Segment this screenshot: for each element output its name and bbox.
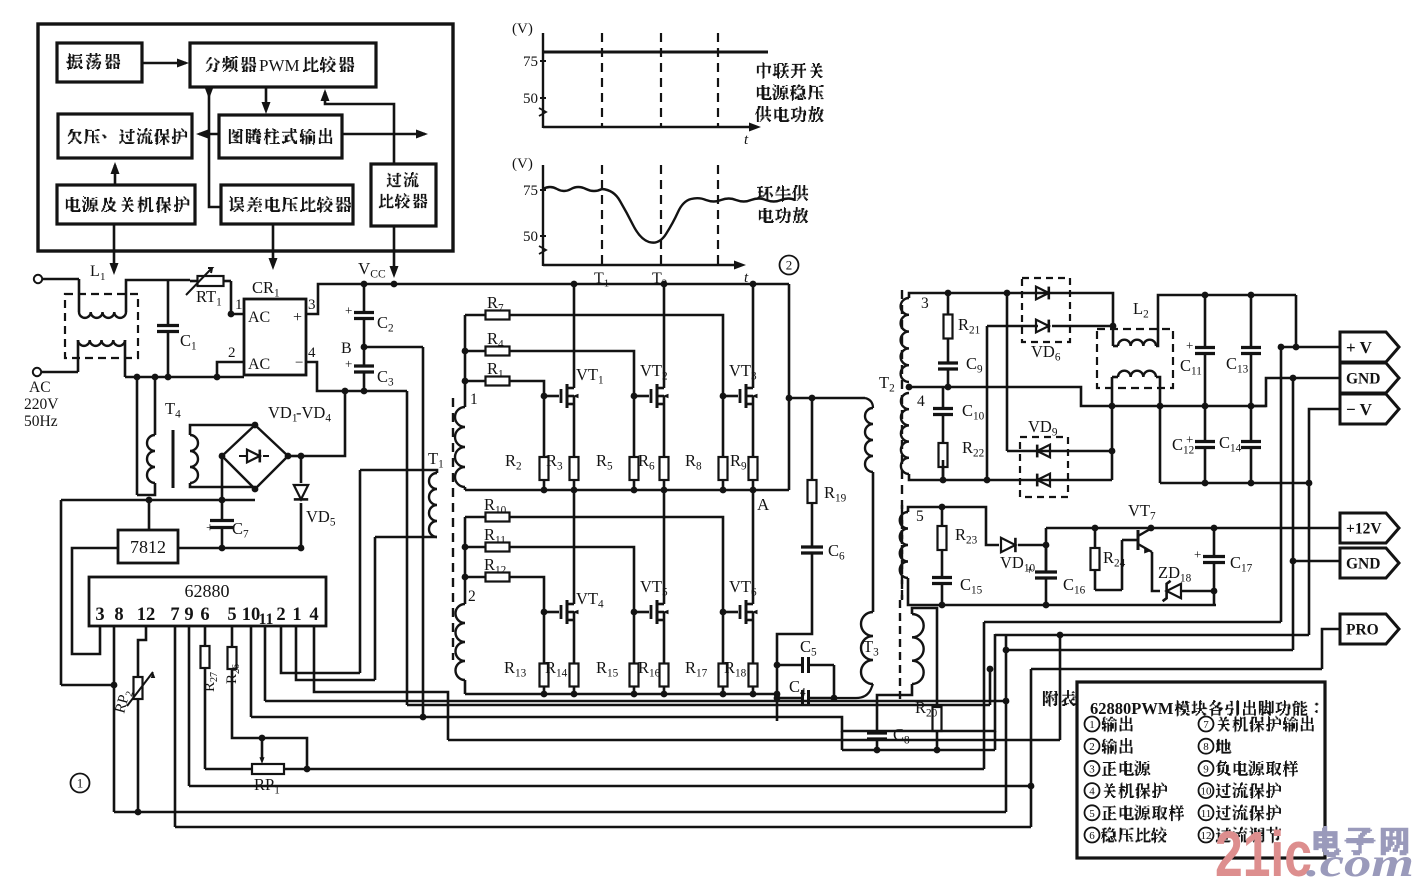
rectifier bridge VD1-VD4	[222, 425, 288, 489]
resistor R14	[573, 656, 576, 664]
svg-text:4: 4	[308, 345, 316, 361]
wire RT1 to CR1 pin1	[231, 281, 244, 314]
wire pin1 to T1 primary bottom	[296, 626, 375, 680]
svg-text:− V: − V	[1346, 400, 1373, 419]
wire totem pole output to right	[342, 133, 425, 136]
capacitor C13	[1250, 295, 1253, 348]
L2 lower winding	[1112, 376, 1118, 379]
arrow error comparator down	[272, 224, 275, 266]
svg-text:AC: AC	[248, 309, 270, 326]
MOSFET VT4	[530, 577, 544, 612]
diode VD6 lower	[987, 325, 1038, 328]
wire left rail to pin8	[61, 684, 114, 687]
AC input terminal bottom	[33, 368, 41, 376]
diode VD10	[1001, 538, 1015, 552]
wire GND2 to GND column	[1293, 560, 1340, 563]
table label 附表	[1043, 691, 1058, 707]
svg-text:6: 6	[1089, 830, 1095, 842]
MOSFET VT1	[530, 381, 544, 396]
arrow PWM to totem pole	[265, 87, 268, 110]
arrow Vcc down	[393, 226, 396, 274]
block diagram outer frame	[38, 24, 453, 251]
column -V sense	[1308, 483, 1311, 635]
trimmer RP2	[138, 626, 146, 677]
wire VT6 source	[752, 620, 755, 656]
block: error voltage comparator 误差电压比较器	[221, 185, 353, 224]
svg-text:GND: GND	[1346, 371, 1380, 388]
table row 1	[1085, 717, 1100, 732]
svg-text:2: 2	[786, 258, 793, 273]
block: totem pole output 图腾柱式输出	[219, 115, 342, 158]
waveform plot 1 axes	[542, 33, 544, 128]
arrow power block down	[113, 224, 116, 271]
wire R4 to VT2 gate	[530, 351, 634, 396]
column PRO nest	[1030, 669, 1033, 827]
wire VT2 drain	[663, 284, 666, 388]
snubber C9	[947, 345, 950, 363]
resistor R3	[573, 447, 576, 457]
transistor VT7	[1122, 539, 1138, 542]
svg-text:AC: AC	[248, 356, 270, 373]
resistor R18	[752, 656, 755, 664]
transformer T1 core	[452, 398, 454, 660]
plot1 dashed timing lines	[601, 33, 603, 127]
L2 upper winding	[1113, 345, 1118, 348]
resistor R16	[663, 656, 666, 664]
wire to GND terminal	[1251, 378, 1340, 406]
block: power and shutdown protection 电源及关机保护	[57, 185, 195, 224]
column nest right1	[989, 669, 992, 705]
output terminal -V	[1340, 394, 1399, 424]
wire VT4 drain to bus	[573, 490, 576, 604]
svg-text:AC: AC	[29, 379, 51, 396]
capacitor C5	[777, 664, 803, 667]
svg-text:+: +	[1026, 562, 1033, 577]
rail -V sense	[995, 634, 1309, 637]
potentiometer RP1	[261, 738, 264, 760]
table row 2	[1085, 739, 1100, 754]
resistor R2	[541, 393, 548, 400]
regulator input rail	[61, 499, 255, 502]
wire pin8 ground column	[113, 626, 116, 812]
rail B feed	[407, 704, 990, 707]
rail nest lower	[448, 739, 1060, 742]
wire winding4 to VD6 lower	[986, 326, 989, 480]
svg-text:3: 3	[921, 295, 929, 312]
svg-text:3: 3	[308, 297, 316, 313]
svg-text:220V: 220V	[24, 396, 59, 413]
wire pin5 to RP1 wiper	[232, 670, 307, 769]
table row 4	[1085, 783, 1100, 798]
svg-text:7: 7	[170, 605, 179, 625]
svg-text:3: 3	[1089, 763, 1095, 775]
output cap C17	[1213, 528, 1216, 557]
output terminal GND 12V	[1340, 548, 1399, 578]
svg-text:1: 1	[235, 297, 243, 313]
rail PRO	[1031, 668, 1322, 671]
source bus bank1 node A	[465, 489, 789, 492]
wire VD9 outputs column	[1111, 377, 1114, 480]
column C8 rail left	[841, 731, 844, 750]
sense column from +V	[1280, 347, 1283, 622]
svg-text:−: −	[295, 355, 303, 371]
wire R20 C8 bottom rail	[842, 749, 995, 752]
svg-text:+: +	[206, 521, 214, 536]
snubber R21	[947, 293, 950, 308]
wire bridge plus output	[288, 455, 301, 458]
wire overcurrent comparator to PWM	[325, 92, 394, 164]
svg-text:+: +	[345, 303, 352, 318]
svg-text:.com: .com	[1306, 840, 1414, 877]
wire RP1 right to +V sense rail	[307, 768, 984, 771]
svg-text:11: 11	[259, 611, 274, 628]
diode VD6 upper	[1022, 292, 1070, 295]
svg-text:12: 12	[137, 605, 156, 625]
svg-text:+ V: + V	[1346, 338, 1373, 357]
wire node B column to nest	[422, 347, 425, 717]
plot2 axis break	[539, 246, 546, 254]
svg-text:10: 10	[242, 605, 261, 625]
output terminal +12V	[1340, 513, 1399, 543]
svg-text:8: 8	[114, 605, 123, 625]
rail pin7	[175, 826, 1031, 829]
svg-text:50: 50	[523, 91, 538, 107]
resistor R5	[631, 393, 638, 400]
capacitor C1	[167, 280, 170, 326]
svg-text:8: 8	[1203, 741, 1209, 753]
aux +12V top rail	[1046, 527, 1340, 530]
column to RP1 rail	[983, 622, 986, 769]
snubber R23	[941, 507, 944, 520]
svg-text:7812: 7812	[130, 537, 166, 557]
wire winding3 top line	[909, 293, 1022, 298]
MOSFET VT5	[634, 611, 649, 614]
MOSFET VT2	[634, 395, 649, 398]
resistor R7	[465, 314, 486, 317]
column C8 rail right	[994, 731, 997, 750]
wire CR1 pin3 to Vcc rail	[306, 284, 789, 314]
plot1 signal line	[544, 51, 768, 54]
wire T4 secondary to bridge	[190, 425, 255, 435]
wire pin7 column	[174, 626, 177, 827]
svg-text:B: B	[341, 340, 352, 357]
svg-text:L: L	[90, 263, 100, 280]
wire R11 to VT5 gate	[530, 547, 634, 612]
wire winding3 to VD9 upper	[1006, 293, 1009, 451]
transformer T3 secondary	[912, 614, 924, 684]
svg-text:A: A	[757, 495, 770, 514]
svg-text:GND: GND	[1346, 556, 1380, 573]
wire VD6 output to L2	[1070, 293, 1113, 346]
resistor R15	[631, 609, 638, 616]
svg-text:10: 10	[1201, 786, 1213, 798]
svg-text:1: 1	[1089, 719, 1095, 731]
svg-text:5: 5	[227, 605, 236, 625]
plot1 axis break	[539, 108, 546, 116]
capacitor C11	[1204, 295, 1207, 348]
IC 62880	[89, 577, 326, 626]
capacitor C4	[777, 697, 803, 700]
source bus bank2	[465, 693, 777, 696]
wire VT2 source	[663, 404, 666, 447]
svg-text:9: 9	[184, 605, 193, 625]
wire to +V terminal	[1295, 295, 1298, 347]
table row 6	[1085, 828, 1100, 843]
wire winding4 bottom line	[909, 474, 1112, 480]
sense column GND	[1292, 378, 1295, 650]
resistor R26 on pin5	[231, 626, 234, 646]
waveform plot 2 axes	[542, 165, 544, 266]
resistor R24	[1094, 528, 1097, 546]
svg-text:2: 2	[228, 345, 236, 361]
wire PRO to nest	[1322, 629, 1340, 669]
wire to -V terminal	[1309, 409, 1340, 483]
diode VD5	[300, 456, 303, 483]
resistor R10	[465, 516, 486, 519]
svg-text:+: +	[293, 309, 302, 326]
rectifier VD6 dashed box	[1022, 278, 1070, 342]
resistor R17	[720, 609, 727, 616]
svg-text:1: 1	[470, 391, 478, 408]
svg-text:5: 5	[916, 508, 924, 525]
arrow totem pole to protection block	[199, 133, 219, 136]
resistor R6	[663, 447, 666, 457]
svg-text:62880: 62880	[185, 581, 230, 601]
wire CR1 pin4 to node line	[306, 362, 407, 391]
svg-text:PWM: PWM	[259, 56, 300, 75]
resistor R12	[465, 576, 486, 579]
capacitor C6	[811, 510, 814, 547]
capacitor C12	[1204, 406, 1207, 442]
winding 5 of T2	[901, 505, 903, 600]
capacitor C7	[221, 500, 224, 521]
svg-text:6: 6	[200, 605, 209, 625]
gate feed column bank2	[464, 517, 467, 604]
wire R24 bottom to base	[1095, 589, 1122, 592]
block: divider PWM comparator 分频器PWM比较器	[190, 43, 376, 87]
wire VT6 drain to bus	[752, 490, 755, 604]
rail +V sense	[984, 621, 1281, 624]
MOSFET VT6	[723, 611, 738, 614]
wire node A to T2 primary	[788, 284, 791, 490]
circled number 2	[780, 256, 799, 275]
svg-text:(V): (V)	[512, 21, 533, 37]
rail GND shutdown sense	[1006, 649, 1293, 652]
svg-text:50: 50	[523, 229, 538, 245]
svg-text:3: 3	[95, 605, 104, 625]
column nest right3	[1059, 635, 1062, 740]
svg-text:1: 1	[100, 271, 106, 283]
snubber R22	[942, 430, 945, 443]
wire pin9 column	[188, 626, 191, 786]
regulator 7812	[118, 530, 178, 563]
transformer T2 primary	[865, 398, 873, 408]
wire VT3 source	[752, 404, 755, 447]
block: oscillator 振荡器	[57, 43, 142, 82]
resistor R1	[465, 380, 486, 383]
capacitor C2	[363, 284, 366, 313]
wire R7 to VT3 gate	[530, 315, 723, 396]
ground rail bottom	[114, 811, 1006, 814]
arrow power block to protection block	[114, 165, 117, 185]
svg-text:7: 7	[1203, 719, 1209, 731]
block: undervoltage overcurrent protection 欠压、过流保护	[58, 114, 192, 158]
zener diode ZD18	[1167, 584, 1181, 598]
wire VT1 source	[573, 404, 576, 447]
output terminal GND	[1340, 363, 1399, 393]
wire VT3 drain	[752, 284, 755, 388]
wire pin10 column	[250, 626, 253, 717]
wire 7812 output rail	[178, 547, 301, 550]
svg-text:50Hz: 50Hz	[24, 413, 58, 430]
resistor R19	[811, 398, 814, 473]
transformer T3 primary	[861, 612, 873, 684]
plot2 signal curve	[543, 187, 795, 243]
column mid nest	[1005, 635, 1008, 812]
wire pin11 column	[264, 626, 267, 701]
rectifier VD9 dashed box	[1020, 437, 1068, 497]
svg-text:+: +	[1194, 547, 1201, 562]
wire gate feed column left bank1	[464, 315, 467, 407]
wire pin2 to T1 primary top	[281, 626, 360, 673]
label 中联开关电源稳压供电功放	[757, 62, 771, 79]
snubber C10	[942, 460, 945, 480]
diode VD9 lower	[1037, 474, 1050, 487]
wire C17 to bottom rail	[1213, 591, 1216, 605]
Vcc rail junction dots	[391, 281, 398, 288]
wire 7812 left to pin3	[72, 548, 118, 654]
svg-text:2: 2	[276, 605, 285, 625]
output bottom rail	[1160, 482, 1309, 485]
wire VT5 source	[663, 620, 666, 656]
transformer T2 core dashes	[901, 290, 903, 600]
bridge rectifier CR1	[244, 299, 306, 375]
svg-text:2: 2	[468, 588, 476, 605]
wire C3 node column to nest	[406, 391, 409, 705]
wire AC line2 to CR1 pin2	[217, 362, 244, 377]
arrow oscillator to PWM comparator	[142, 62, 186, 65]
resistor R8	[720, 393, 727, 400]
svg-text:+: +	[345, 356, 352, 371]
table row 5	[1085, 805, 1100, 820]
svg-text:9: 9	[1203, 763, 1209, 775]
wire R10 to VT6 gate	[530, 517, 723, 612]
svg-text:4: 4	[309, 605, 318, 625]
wire C6 to coupling caps	[777, 590, 812, 665]
svg-text:4: 4	[917, 393, 925, 410]
wire bridge minus to rail	[221, 456, 224, 500]
svg-text:+: +	[1186, 338, 1193, 353]
svg-text:75: 75	[523, 183, 538, 199]
svg-text:5: 5	[1089, 808, 1095, 820]
wire VT1 drain	[573, 284, 576, 388]
T1 primary winding	[429, 473, 437, 537]
rail pin11	[265, 700, 1006, 703]
capacitor C3	[363, 347, 366, 366]
wire winding5 bottom rail	[908, 578, 1216, 605]
capacitor C8	[876, 722, 879, 733]
snubber C15	[941, 556, 944, 578]
wire pin4 shutdown route	[314, 626, 448, 740]
svg-text:11: 11	[1201, 808, 1212, 820]
svg-text:(V): (V)	[512, 156, 533, 172]
wire pin6 to RP1 left	[205, 768, 252, 771]
svg-text:4: 4	[1089, 786, 1095, 798]
table frame	[1077, 682, 1325, 858]
wire T1 primary top column	[359, 470, 362, 673]
resistor R20	[936, 701, 939, 707]
T2 center tap line	[906, 384, 913, 391]
circled number 1	[71, 774, 90, 793]
wire VT5 drain to bus	[663, 490, 666, 604]
node B	[364, 346, 423, 349]
resistor R4	[465, 350, 486, 353]
svg-text:+12V: +12V	[1346, 521, 1382, 538]
resistor R13	[541, 609, 548, 616]
wire AC bottom rail	[125, 376, 244, 379]
output terminal +V	[1340, 332, 1399, 362]
MOSFET VT3	[723, 395, 738, 398]
diode VD9 upper	[1007, 450, 1112, 453]
resistor R9	[752, 447, 755, 457]
plot2 dashed timing lines	[601, 165, 603, 265]
block: overcurrent comparator 过流比较器	[371, 164, 436, 226]
wire VT7 emitter to zener	[1152, 552, 1160, 591]
output mid GND rail	[1202, 403, 1209, 410]
rail pin10 staircase	[251, 634, 995, 731]
svg-text:2: 2	[1089, 741, 1095, 753]
svg-text:21ic: 21ic	[1215, 818, 1312, 877]
wire winding5 top	[908, 507, 999, 545]
resistor R11	[465, 546, 486, 549]
transformer T3 core	[899, 600, 901, 700]
label 环牛供电功放	[757, 186, 773, 201]
table row 3	[1085, 761, 1100, 776]
rail pin9	[189, 785, 1031, 788]
svg-text:12: 12	[1201, 830, 1212, 842]
svg-text:1: 1	[292, 605, 301, 625]
svg-text:75: 75	[523, 54, 538, 70]
svg-text:1: 1	[77, 776, 84, 791]
thermistor RT1	[190, 280, 198, 283]
svg-text:62880PWM: 62880PWM	[1090, 699, 1174, 718]
wire PWM down to error comparator	[209, 87, 221, 207]
wire T1 primary bottom column	[374, 537, 377, 680]
capacitor C14	[1250, 406, 1253, 442]
output terminal PRO	[1340, 614, 1399, 644]
resistor R27 on pin6	[204, 626, 207, 644]
AC input terminal top	[34, 275, 42, 283]
svg-text:PRO: PRO	[1346, 622, 1379, 639]
smoothing cap C16	[1045, 528, 1048, 570]
wire VT4 source	[573, 620, 576, 656]
